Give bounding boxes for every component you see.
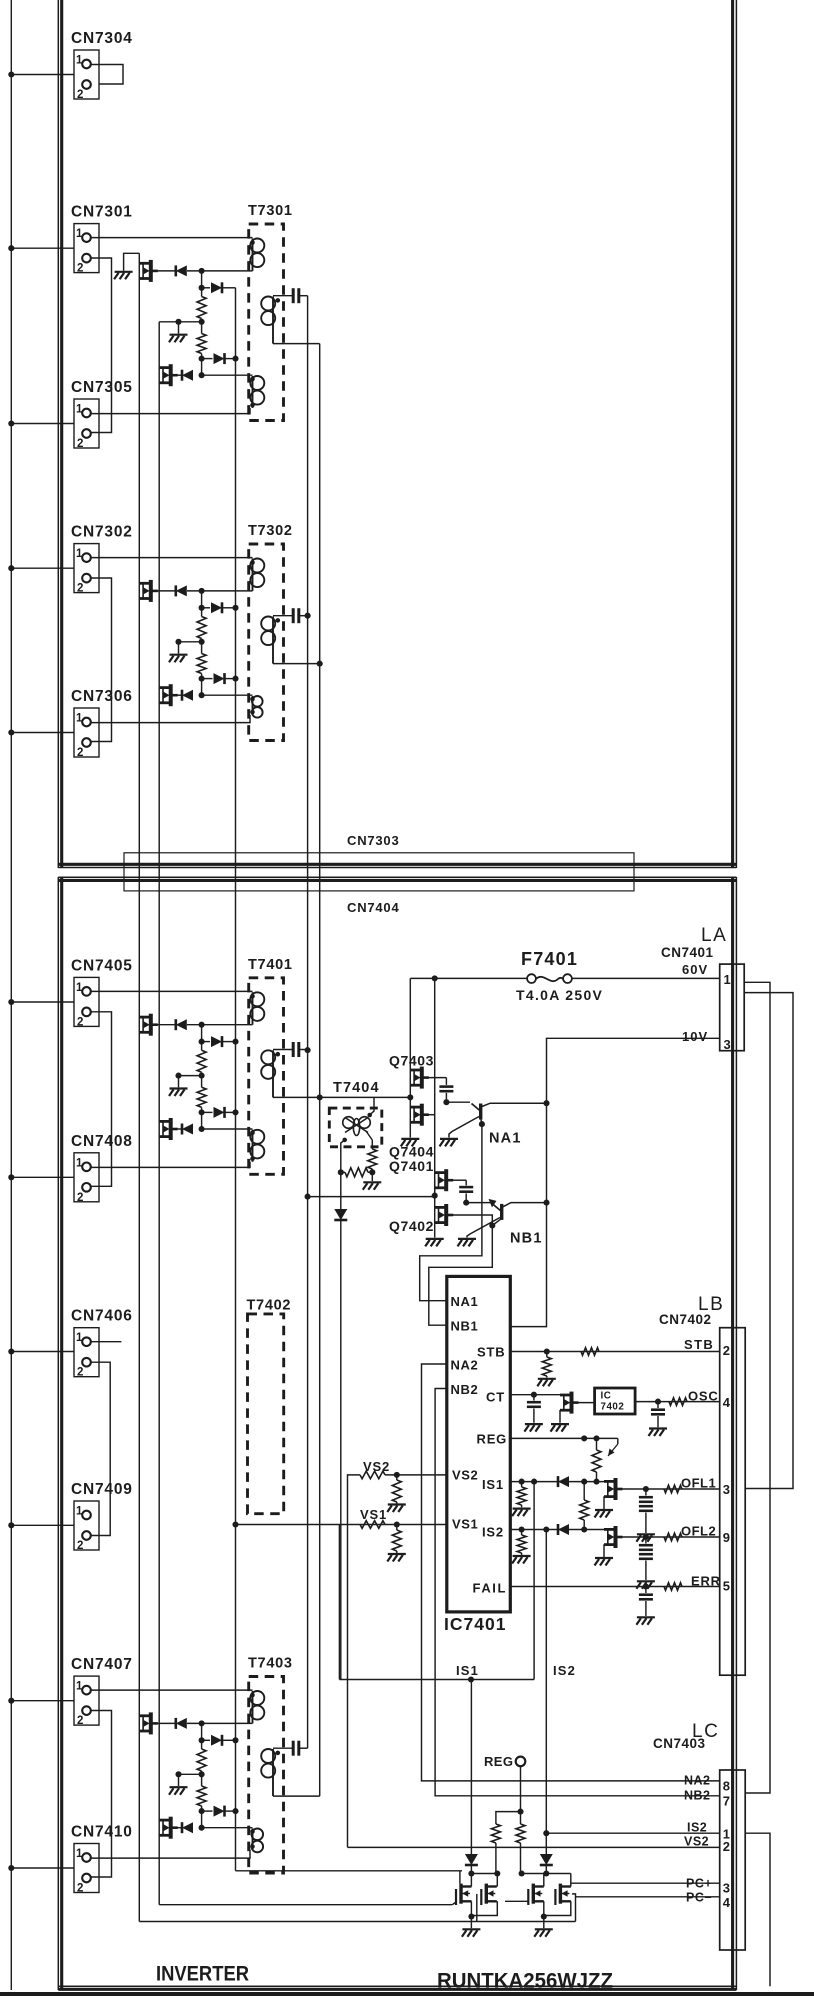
node A	[199, 588, 205, 594]
svg-text:REG: REG	[477, 1432, 508, 1447]
svg-text:2: 2	[77, 1367, 83, 1379]
lamp out bus A (x=307.6)	[307, 296, 309, 1749]
zener diode on sense line	[334, 1209, 347, 1220]
mosfet OFL1	[604, 1478, 616, 1500]
wire node E to primary2 top	[202, 1128, 253, 1130]
left rail junction CN7410	[8, 1865, 14, 1871]
output mosfet Q-right-B	[555, 1884, 571, 1905]
diode D-c (right) to sense bus	[202, 678, 213, 680]
wire T7404 out to Q7401/Q7402 gates	[308, 1196, 435, 1198]
left rail junction CN7306	[8, 729, 14, 735]
wire secondary bottom out	[273, 343, 320, 345]
NB1 emitter node	[489, 1222, 495, 1228]
node C	[199, 1771, 205, 1777]
transformer T7302 primary winding 1	[250, 559, 264, 591]
sense bus corner to output block	[236, 1870, 463, 1872]
node D	[199, 1808, 205, 1814]
output mosfet Q-right-A	[528, 1884, 544, 1905]
svg-text:4: 4	[723, 1895, 731, 1910]
node A	[199, 268, 205, 274]
VS2 row to LC pin2	[348, 1846, 720, 1848]
svg-text:8: 8	[723, 1779, 731, 1794]
svg-text:CN7304: CN7304	[71, 30, 133, 47]
transformer T7404 box	[329, 1108, 382, 1147]
connector CN7403 (LC)	[720, 1770, 746, 1950]
svg-text:1: 1	[76, 1157, 83, 1169]
right pair drain links	[543, 1874, 545, 1887]
wire CN7407.1 to T7403 primary1	[91, 1689, 253, 1691]
svg-text:NA2: NA2	[684, 1774, 711, 1788]
svg-text:ERR: ERR	[691, 1574, 721, 1589]
diode D-b (right) to sense bus	[202, 1041, 210, 1043]
transformer T7403 primary winding 2	[251, 1829, 263, 1853]
svg-text:NA1: NA1	[451, 1294, 479, 1309]
mosfet Q7402	[435, 1204, 447, 1226]
60V rail vertical (x=434.7)	[434, 978, 436, 1195]
STB row wire	[510, 1351, 719, 1353]
svg-text:1: 1	[76, 1848, 83, 1860]
ground OFL1 mosfet	[595, 1510, 614, 1518]
VS1 jog vertical	[338, 1525, 340, 1680]
ground at divider	[169, 1787, 188, 1795]
wire IC7402 to OSC pin	[635, 1401, 720, 1403]
node VS1 on sense bus	[232, 1521, 238, 1527]
resistor divider R-b	[201, 322, 203, 334]
node STB	[544, 1348, 550, 1354]
svg-text:4: 4	[723, 1395, 731, 1410]
svg-text:1: 1	[76, 548, 83, 560]
transformer T7301 secondary winding	[261, 297, 275, 344]
resistor T7404 vertical	[368, 1149, 377, 1169]
svg-text:T7302: T7302	[248, 523, 293, 539]
mosfet Q7403	[410, 1067, 422, 1089]
lamp out bus B junctions	[317, 661, 323, 667]
IS1 row wire	[510, 1481, 604, 1483]
wire LA out B	[744, 993, 793, 1489]
diode D-a (left)	[176, 585, 187, 596]
svg-text:T4.0A 250V: T4.0A 250V	[516, 987, 603, 1003]
wire NA1 emitter to IC NA1 pin	[420, 1124, 482, 1301]
NA1 ground diagonal	[449, 1117, 479, 1138]
node left pair source	[468, 1913, 474, 1919]
node B	[199, 605, 205, 611]
left rail junction CN7406	[8, 1348, 14, 1354]
sense bus junction	[232, 1737, 238, 1743]
node A	[199, 1720, 205, 1726]
wire CN7405.1 to T7401 primary1	[91, 990, 253, 992]
svg-text:3: 3	[723, 1482, 731, 1497]
svg-text:2: 2	[77, 583, 83, 595]
wire CN7305.1 to T7301 primary2 bottom	[91, 408, 250, 414]
wire node D down	[201, 679, 203, 696]
resistor REG right leg	[520, 1812, 522, 1824]
node IS2 LC	[543, 1830, 549, 1836]
node C	[199, 1073, 205, 1079]
mosfet lower	[159, 1817, 171, 1839]
diode IS1 sense	[465, 1854, 478, 1865]
variable resistor arrow	[617, 1438, 619, 1444]
IS1 sense vertical	[533, 1482, 535, 1680]
transformer T7302 primary winding 2	[252, 696, 263, 718]
svg-text:IS2: IS2	[687, 1821, 707, 1835]
bottom box right border	[731, 877, 734, 1990]
svg-text:2: 2	[77, 747, 83, 759]
10V rail junction NB1	[543, 1200, 549, 1206]
mosfet OFL2	[604, 1526, 616, 1548]
sense line continues to VS1 row and jog	[340, 1221, 342, 1680]
node REG divider	[517, 1809, 523, 1815]
svg-text:CN7401: CN7401	[661, 945, 714, 960]
wire LC pin1 to right edge	[745, 1833, 770, 1986]
wire T7404 left terminal down	[341, 1140, 345, 1172]
resistor REG left leg	[496, 1812, 521, 1824]
node C	[199, 319, 205, 325]
mosfet OSC switch	[560, 1392, 572, 1414]
svg-text:3: 3	[724, 1037, 732, 1052]
wire CN7304 pin1-pin2 loop	[91, 65, 123, 85]
left pair drain links	[470, 1874, 472, 1887]
wire node D down	[201, 1112, 203, 1129]
ground at divider	[169, 335, 188, 343]
node OSC cap	[655, 1399, 661, 1405]
wire T7401 secondary bottom to Q7403/Q7404 gate line	[320, 1096, 411, 1098]
wire node A down	[201, 1025, 203, 1042]
wire node C to lower gate rail start	[159, 321, 178, 323]
NA1 emitter node	[479, 1121, 485, 1127]
svg-text:7402: 7402	[601, 1402, 625, 1413]
mosfet upper (T7301 drive A)	[124, 253, 140, 270]
ground OSC mosfet	[551, 1424, 570, 1432]
diode D-d (left)	[182, 1124, 193, 1135]
node CT cap	[531, 1392, 537, 1398]
wire node C to ground branch	[179, 1075, 202, 1077]
output mosfet Q-left-A	[456, 1884, 472, 1905]
left rail junction CN7407	[8, 1698, 14, 1704]
svg-text:T7301: T7301	[248, 203, 293, 219]
ground at divider	[169, 655, 188, 663]
diode D-d (left)	[182, 1822, 193, 1833]
resistor IS2 pull-down	[521, 1530, 523, 1536]
svg-text:Q7403: Q7403	[389, 1053, 434, 1069]
svg-text:VS2: VS2	[684, 1835, 709, 1849]
svg-text:NA1: NA1	[489, 1131, 522, 1147]
IS1 jog wire	[339, 1679, 534, 1681]
node VS2	[394, 1472, 400, 1478]
left rail wire	[10, 0, 12, 1990]
gate rail A (x=139.3)	[138, 253, 140, 1921]
mosfet lower	[159, 1118, 171, 1140]
diode D-a (left)	[176, 1019, 187, 1030]
resistor divider R-a	[201, 608, 203, 617]
wire REG down	[520, 1766, 522, 1812]
diode D-b (right) to sense bus	[202, 1739, 210, 1741]
svg-text:1: 1	[76, 404, 83, 416]
svg-text:CN7410: CN7410	[71, 1824, 133, 1841]
capacitor secondary coupling	[273, 1747, 292, 1749]
wire Q7401 drain to NB1 cap	[452, 1179, 466, 1181]
transformer T7401 primary winding 2	[250, 1130, 264, 1162]
ground at divider	[169, 1089, 188, 1097]
node B	[199, 1039, 205, 1045]
svg-text:IS1: IS1	[482, 1477, 504, 1492]
svg-text:T7401: T7401	[248, 957, 293, 973]
svg-text:CN7407: CN7407	[71, 1656, 133, 1673]
node D	[199, 676, 205, 682]
bottom box left border	[57, 877, 59, 1990]
gate rail B (x=159.2)	[158, 322, 160, 1905]
mosfet upper (T7403 drive A)	[139, 1712, 151, 1734]
svg-text:2: 2	[77, 1540, 83, 1552]
gate riser left pair B	[476, 1894, 478, 1922]
wire OFL1 drain row	[622, 1488, 720, 1490]
wire NB1 emitter to IC NB1 pin	[429, 1226, 493, 1326]
wire Q7402 drain to NB1 emitter	[452, 1215, 492, 1226]
transformer T7302 secondary winding	[261, 617, 275, 664]
svg-text:F7401: F7401	[521, 949, 578, 969]
resistor STB series	[581, 1348, 599, 1356]
wire secondary bottom out	[273, 663, 320, 665]
svg-text:60V: 60V	[682, 962, 708, 977]
NB1 ground diagonal	[467, 1218, 500, 1238]
sense bus junction	[232, 605, 238, 611]
left rail junction CN7405	[8, 999, 14, 1005]
top box left border	[57, 0, 59, 868]
diode IS2 row	[558, 1524, 569, 1535]
bottom box top border	[58, 876, 736, 878]
mosfet upper (T7401 drive A)	[139, 1014, 151, 1036]
ground below T7404	[371, 1172, 373, 1181]
svg-text:T7402: T7402	[247, 1298, 292, 1314]
wire fuse to CN7401 pin1	[572, 977, 720, 979]
node T7404 R2	[369, 1169, 375, 1175]
transformer T7301 primary winding 1	[250, 239, 264, 271]
wire node E to primary2 top	[202, 694, 253, 696]
diode D-c (right) to sense bus	[202, 1810, 213, 1812]
capacitors OFL2	[645, 1537, 647, 1544]
node E	[199, 372, 205, 378]
capacitor OSC	[657, 1402, 659, 1408]
wire node A down	[201, 1723, 203, 1740]
svg-text:OFL1: OFL1	[681, 1476, 716, 1491]
svg-text:1: 1	[76, 55, 83, 67]
svg-text:OFL2: OFL2	[681, 1524, 716, 1539]
IC U7402 box	[578, 1402, 595, 1404]
svg-text:STB: STB	[684, 1337, 714, 1352]
resistor VS1 to ground	[396, 1525, 398, 1531]
capacitor at NA1 base	[445, 1078, 447, 1085]
wire CN7408.1 to T7401 primary2 bottom	[91, 1162, 250, 1168]
gate rail B corner to output mosfet gates	[159, 1904, 452, 1906]
svg-text:IS1: IS1	[456, 1663, 479, 1678]
svg-text:2: 2	[77, 1883, 83, 1895]
svg-text:9: 9	[723, 1530, 731, 1545]
connector CN7303 bus rectangle	[124, 853, 634, 891]
node REG a	[581, 1435, 587, 1441]
wire CN7301.2-CN7305.2 link	[91, 258, 112, 433]
resistor ERR series	[664, 1583, 682, 1591]
wire node C to ground branch	[179, 321, 202, 323]
mosfet lower	[159, 364, 171, 386]
wire node A down	[201, 591, 203, 608]
mosfet Q7401	[435, 1169, 447, 1191]
svg-text:1: 1	[76, 1506, 83, 1518]
left rail junction CN7305	[8, 420, 14, 426]
node ERR	[643, 1583, 649, 1589]
wire CN7410.1 to T7403 primary2 bottom	[91, 1850, 250, 1859]
node NB1 base	[463, 1200, 469, 1206]
node IS2 a	[519, 1526, 525, 1532]
node NA1 base	[443, 1099, 449, 1105]
node D	[199, 356, 205, 362]
wire CN7302.2-CN7306.2 link	[91, 578, 112, 742]
wire 60V row	[410, 977, 527, 979]
connector CN7402 (LB)	[720, 1328, 746, 1676]
left rail junction CN7409	[8, 1522, 14, 1528]
svg-text:7: 7	[723, 1794, 731, 1809]
diode IS1 row	[558, 1476, 569, 1487]
resistor STB pull-down	[546, 1352, 548, 1358]
capacitor secondary coupling	[273, 1049, 292, 1051]
voltage sense bus (x=235.5)	[235, 288, 237, 1871]
node Q gate feed	[432, 1193, 438, 1199]
wire CN7306.1 to T7302 primary2 bottom	[91, 715, 250, 723]
svg-text:NB2: NB2	[451, 1382, 479, 1397]
top box right border	[731, 0, 734, 868]
wire T7404 R2 top to winding	[366, 1131, 372, 1140]
node T7404 R	[338, 1169, 344, 1175]
node C	[199, 639, 205, 645]
svg-text:CN7409: CN7409	[71, 1481, 133, 1498]
CT row wire	[510, 1394, 560, 1396]
wire secondary bottom out	[273, 1795, 320, 1797]
transistor NB1	[466, 1202, 491, 1204]
svg-text:2: 2	[77, 438, 83, 450]
svg-text:2: 2	[723, 1343, 731, 1358]
svg-text:T7403: T7403	[248, 1656, 293, 1672]
bottom box bottom border	[58, 1985, 736, 1987]
resistor IS1-IS2	[583, 1482, 585, 1500]
svg-text:NB2: NB2	[684, 1789, 711, 1803]
svg-text:5: 5	[723, 1579, 731, 1594]
IS2 row to LC pin1	[546, 1832, 719, 1834]
resistor divider R-b	[201, 1076, 203, 1088]
svg-text:2: 2	[77, 1715, 83, 1727]
svg-text:CN7301: CN7301	[71, 204, 133, 221]
svg-text:PC+: PC+	[686, 1877, 712, 1891]
node IS1 d	[593, 1479, 599, 1485]
svg-text:RUNTKA256WJZZ: RUNTKA256WJZZ	[437, 1969, 613, 1992]
wire CN7301.1 to T7301 primary1	[91, 237, 253, 239]
node IS2 b	[543, 1526, 549, 1532]
node 60V	[432, 975, 438, 981]
NA2 feed wire from LC	[422, 1364, 720, 1781]
ground at upper mosfet gate	[114, 272, 133, 280]
node IS1 c	[581, 1479, 587, 1485]
svg-text:CN7404: CN7404	[347, 900, 400, 915]
left rail junction CN7302	[8, 565, 14, 571]
svg-text:REG: REG	[484, 1754, 513, 1769]
resistor OFL1 series	[664, 1485, 682, 1493]
svg-text:1: 1	[76, 228, 83, 240]
node VS1	[394, 1521, 400, 1527]
transformer T7401 secondary winding	[261, 1050, 275, 1097]
svg-text:FAIL: FAIL	[473, 1581, 508, 1596]
node right pair source	[541, 1913, 547, 1919]
sense bus junction	[232, 1039, 238, 1045]
wire node C to ground branch	[179, 641, 202, 643]
svg-text:2: 2	[723, 1839, 731, 1854]
wire 60V corner down / Q gate line (x=410.3)	[409, 978, 411, 1137]
diode D-a (left)	[176, 1718, 187, 1729]
ground at Q7404 source	[401, 1139, 420, 1147]
svg-text:CN7302: CN7302	[71, 524, 133, 541]
capacitor secondary coupling	[273, 295, 292, 297]
svg-text:NA2: NA2	[451, 1358, 479, 1373]
resistor IS1 pull-down	[521, 1482, 523, 1487]
svg-text:CN7303: CN7303	[347, 833, 400, 848]
wire OFL2 drain row	[622, 1536, 720, 1538]
wire node D down	[201, 359, 203, 376]
variable resistor REG-IS1	[596, 1438, 598, 1450]
transformer T7404 windings	[343, 1117, 371, 1136]
mosfet upper (T7302 drive A)	[139, 580, 151, 602]
left rail junction CN7408	[8, 1174, 14, 1180]
svg-text:CN7403: CN7403	[653, 1736, 706, 1751]
svg-text:10V: 10V	[682, 1029, 708, 1044]
10V rail junction NA1	[543, 1100, 549, 1106]
svg-text:INVERTER: INVERTER	[156, 1962, 249, 1986]
wire node E to primary2 top	[202, 374, 253, 376]
diode D-c (right) to sense bus	[202, 358, 213, 360]
resistor T7404 horizontal	[341, 1171, 345, 1173]
node IS1 a	[519, 1479, 525, 1485]
ERR row wire	[510, 1586, 719, 1588]
IC U7401 box	[447, 1276, 511, 1612]
node B	[199, 1737, 205, 1743]
diode D-a (left)	[176, 265, 187, 276]
right pair node line	[522, 1873, 571, 1875]
wire CN7405.2-CN7408.2 link	[91, 1012, 112, 1187]
node E	[199, 1825, 205, 1831]
wire node E to primary2 top	[202, 1827, 253, 1829]
gate rail A corner to output mosfet gates	[139, 1921, 575, 1923]
ground OFL2 mosfet	[595, 1558, 614, 1566]
svg-text:2: 2	[77, 89, 83, 101]
wire secondary bottom out	[273, 1096, 320, 1098]
resistor OSC series	[669, 1398, 687, 1406]
gate riser right pair B	[572, 1894, 576, 1922]
node D	[199, 1109, 205, 1115]
diode D-d (left)	[182, 370, 193, 381]
IS2 sense vertical	[545, 1530, 547, 1855]
IS1 branch to output diode	[470, 1680, 472, 1855]
top box bottom border	[58, 863, 736, 866]
svg-text:IC: IC	[601, 1391, 612, 1402]
svg-text:VS2: VS2	[452, 1468, 478, 1483]
svg-text:PC−: PC−	[686, 1891, 712, 1905]
left rail junction CN7304	[8, 71, 14, 77]
wire node A down	[201, 271, 203, 288]
node E	[199, 1126, 205, 1132]
svg-text:CN7305: CN7305	[71, 379, 133, 396]
PC- wire	[576, 1896, 720, 1898]
IS2 row wire	[510, 1529, 604, 1531]
node IS1 b	[531, 1479, 537, 1485]
svg-text:NB1: NB1	[451, 1319, 479, 1334]
connector CN7401 (LA)	[720, 964, 745, 1051]
ground right pair	[534, 1929, 553, 1937]
wire node C to ground branch	[179, 1773, 202, 1775]
